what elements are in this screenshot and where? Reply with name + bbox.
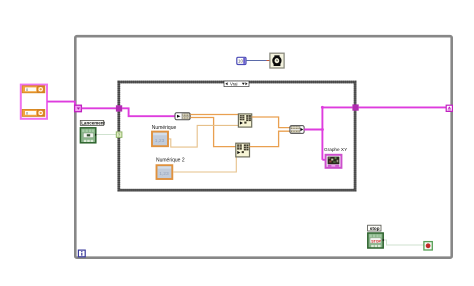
numeric control Numerique [152,132,168,147]
case structure border [119,82,355,190]
label stop [368,225,381,231]
svg-text:Lancement: Lancement [81,121,105,126]
wire case tunnel to right shift register [359,106,447,108]
right shift register tunnel [446,105,452,111]
case selector label Vrai [224,81,249,87]
cluster constant [21,85,47,119]
XY graph terminal [326,155,342,168]
case selector terminal [116,132,122,138]
wire bundle to graph and tunnel [304,106,352,160]
left shift register tunnel [75,105,82,112]
label Numerique [152,125,177,131]
loop iteration terminal i [78,250,85,257]
svg-text:10: 10 [238,59,243,64]
svg-text:1,23: 1,23 [159,171,169,177]
boolean control stop [368,233,385,248]
wire lancement to selector [97,134,117,136]
wire upper node to bundle [252,117,290,128]
lower function node [236,143,250,157]
wire unbundle out2 to lower node [190,118,236,147]
unbundle node [175,113,190,120]
wire lower node to bundle [250,131,290,146]
svg-text:Numérique 2: Numérique 2 [156,158,185,164]
wire constant to metronome [246,60,270,62]
svg-text:STOP: STOP [371,239,381,243]
upper function node [238,114,251,127]
svg-text:stop: stop [370,226,380,231]
case left tunnel [116,105,122,111]
while loop border [75,36,451,258]
numeric control Numerique 2 [157,165,173,179]
svg-text:Numérique: Numérique [152,125,177,131]
numeric constant 10 [237,57,246,64]
wire stop to conditional terminal [385,240,424,245]
wire cluster to loop tunnel [47,102,75,106]
case right tunnel [352,104,358,110]
svg-text:0: 0 [26,88,28,92]
wire Numerique 2 to lower node [173,157,236,172]
wire Numerique to upper node [169,125,238,147]
wire unbundle out1 to upper node [190,114,238,116]
loop conditional terminal [424,242,432,250]
wire tunnel to unbundle [122,108,175,116]
bundle node [290,126,304,134]
svg-text:Vrai: Vrai [230,81,238,86]
svg-text:1,23: 1,23 [155,138,165,144]
svg-text:0: 0 [26,111,28,115]
label Lancement [80,120,105,125]
boolean control lancement [80,128,97,143]
wait metronome function [270,53,284,68]
label Graphe XY [324,147,348,152]
svg-text:Graphe XY: Graphe XY [324,147,348,152]
label Numerique 2 [156,158,185,164]
wire shift register to case tunnel [82,107,116,109]
